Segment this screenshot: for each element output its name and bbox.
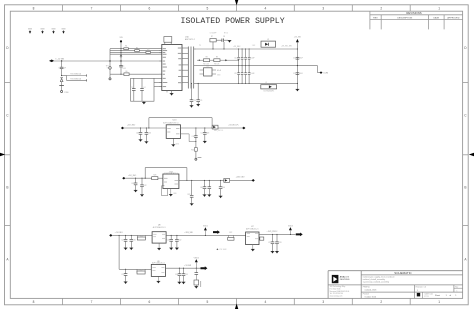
svg-text:C9 100PF: C9 100PF bbox=[210, 33, 217, 35]
svg-text:B: B bbox=[6, 186, 8, 190]
svg-text:6: 6 bbox=[149, 6, 151, 10]
svg-text:C35: C35 bbox=[185, 274, 188, 276]
svg-text:+ 3V3_PROC: + 3V3_PROC bbox=[267, 231, 279, 233]
svg-text:C14: C14 bbox=[293, 58, 296, 60]
svg-text:C3: C3 bbox=[131, 87, 133, 89]
svg-text:C21: C21 bbox=[200, 100, 203, 102]
svg-text:TP1: TP1 bbox=[106, 65, 109, 67]
svg-text:10UF: 10UF bbox=[299, 73, 303, 75]
svg-text:R29: R29 bbox=[187, 194, 190, 196]
svg-text:R5: R5 bbox=[136, 47, 138, 49]
svg-text:www.analog.com: www.analog.com bbox=[330, 295, 343, 297]
svg-text:C12: C12 bbox=[234, 73, 237, 75]
svg-text:DEVICES: DEVICES bbox=[340, 279, 350, 281]
svg-text:4: 4 bbox=[265, 300, 267, 304]
svg-text:R30: R30 bbox=[191, 149, 194, 151]
svg-text:57721: 57721 bbox=[424, 296, 429, 298]
svg-text:C34: C34 bbox=[175, 274, 178, 276]
svg-text:7: 7 bbox=[91, 300, 93, 304]
svg-text:2: 2 bbox=[380, 300, 382, 304]
svg-text:5V: 5V bbox=[107, 68, 109, 70]
svg-text:R3: R3 bbox=[147, 49, 149, 51]
svg-text:C4: C4 bbox=[143, 87, 145, 89]
svg-text:1: 1 bbox=[438, 300, 440, 304]
svg-text:C44: C44 bbox=[222, 187, 225, 189]
svg-text:Revision: 1.0: Revision: 1.0 bbox=[416, 286, 426, 288]
svg-text:1: 1 bbox=[438, 6, 440, 10]
svg-text:R28: R28 bbox=[153, 174, 156, 176]
svg-text:3: 3 bbox=[322, 6, 324, 10]
svg-text:GND_ISO_FL: GND_ISO_FL bbox=[214, 130, 224, 132]
svg-text:October 2016: October 2016 bbox=[365, 295, 376, 298]
svg-text:1: 1 bbox=[455, 295, 456, 297]
svg-text:R7: R7 bbox=[211, 36, 213, 38]
svg-text:C51 10UF: C51 10UF bbox=[219, 249, 226, 251]
svg-text:C20: C20 bbox=[193, 100, 196, 102]
svg-text:C41: C41 bbox=[131, 183, 134, 185]
svg-text:C32: C32 bbox=[178, 240, 181, 242]
svg-text:U11: U11 bbox=[206, 66, 209, 68]
svg-text:5 - 12 VIN: 5 - 12 VIN bbox=[55, 59, 64, 61]
svg-text:L2: L2 bbox=[267, 39, 269, 41]
svg-text:10UF: 10UF bbox=[122, 68, 126, 70]
svg-text:R6: R6 bbox=[126, 71, 128, 73]
svg-text:C5: C5 bbox=[58, 68, 60, 70]
svg-text:Rev: Rev bbox=[455, 287, 458, 289]
svg-text:PWB No:: PWB No: bbox=[363, 286, 371, 288]
svg-text:10UF: 10UF bbox=[250, 58, 254, 60]
svg-text:C47: C47 bbox=[200, 133, 203, 135]
svg-text:C1: C1 bbox=[122, 66, 124, 68]
svg-text:+5V_ISO: +5V_ISO bbox=[128, 175, 137, 177]
svg-text:C27: C27 bbox=[268, 242, 271, 244]
svg-text:L3: L3 bbox=[265, 82, 267, 84]
svg-text:R7 10: R7 10 bbox=[224, 33, 228, 35]
svg-text:4: 4 bbox=[265, 6, 267, 10]
svg-text:DESCRIPTION: DESCRIPTION bbox=[397, 18, 412, 20]
svg-text:C46: C46 bbox=[148, 133, 151, 135]
svg-text:1 UF: 1 UF bbox=[252, 45, 255, 47]
svg-text:R9: R9 bbox=[216, 56, 218, 58]
svg-text:3190: 3190 bbox=[217, 75, 221, 77]
svg-text:R4: R4 bbox=[125, 46, 127, 48]
svg-text:Printed:: Printed: bbox=[363, 293, 370, 296]
svg-text:ANALOG: ANALOG bbox=[340, 275, 349, 278]
svg-text:C31: C31 bbox=[167, 240, 170, 242]
svg-text:8: 8 bbox=[33, 300, 35, 304]
svg-text:1: 1 bbox=[417, 290, 418, 292]
svg-text:D6 SS2040FL: D6 SS2040FL bbox=[264, 90, 275, 92]
svg-text:T1: T1 bbox=[199, 45, 201, 47]
svg-text:2: 2 bbox=[380, 6, 382, 10]
svg-text:+ 5V SW: + 5V SW bbox=[184, 265, 191, 267]
svg-text:R9 10K: R9 10K bbox=[214, 63, 219, 65]
svg-text:C30: C30 bbox=[133, 240, 136, 242]
svg-text:B: B bbox=[464, 186, 466, 190]
svg-text:C8: C8 bbox=[223, 36, 225, 38]
svg-text:10UF: 10UF bbox=[250, 73, 254, 75]
svg-text:REV: REV bbox=[373, 18, 378, 20]
svg-text:C10: C10 bbox=[234, 58, 237, 60]
svg-text:C29: C29 bbox=[121, 240, 124, 242]
svg-text:C42: C42 bbox=[143, 185, 146, 187]
svg-text:DATE: DATE bbox=[433, 17, 439, 20]
svg-text:C49: C49 bbox=[192, 136, 195, 138]
svg-text:C15: C15 bbox=[293, 73, 296, 75]
svg-text:R24: R24 bbox=[140, 235, 143, 237]
svg-text:R25: R25 bbox=[140, 269, 143, 271]
svg-text:8: 8 bbox=[33, 6, 35, 10]
svg-text:+5V_SEC: +5V_SEC bbox=[233, 46, 241, 48]
svg-text:isolated_1306: isolated_1306 bbox=[365, 289, 377, 292]
svg-text:C33: C33 bbox=[121, 274, 124, 276]
svg-text:C43: C43 bbox=[200, 187, 203, 189]
svg-text:+5V_ISO: +5V_ISO bbox=[127, 125, 136, 127]
svg-text:ISOLATED POWER SUPPLY: ISOLATED POWER SUPPLY bbox=[181, 17, 285, 26]
svg-text:REVISIONS: REVISIONS bbox=[406, 11, 421, 15]
svg-text:+5V_ISO: +5V_ISO bbox=[294, 36, 302, 38]
svg-text:+5V_ISO_FL: +5V_ISO_FL bbox=[228, 124, 238, 126]
svg-text:3: 3 bbox=[322, 300, 324, 304]
svg-text:10UF: 10UF bbox=[299, 58, 303, 60]
svg-text:1UF: 1UF bbox=[63, 68, 66, 70]
svg-text:Sheet: Sheet bbox=[435, 294, 440, 297]
svg-text:5: 5 bbox=[207, 6, 209, 10]
svg-text:R22: R22 bbox=[229, 232, 232, 234]
svg-text:supervisory_isolated_assembly: supervisory_isolated_assembly bbox=[363, 281, 389, 284]
svg-text:+5V_ISO_SW: +5V_ISO_SW bbox=[281, 45, 292, 47]
svg-text:7: 7 bbox=[91, 6, 93, 10]
svg-text:C48: C48 bbox=[206, 133, 209, 135]
svg-text:5: 5 bbox=[207, 300, 209, 304]
svg-text:R8 100K: R8 100K bbox=[203, 63, 209, 65]
svg-text:1: 1 bbox=[446, 295, 447, 297]
svg-text:C45: C45 bbox=[136, 133, 139, 135]
svg-text:+3.3V_ISO: +3.3V_ISO bbox=[236, 177, 245, 179]
svg-text:+3V3_SW: +3V3_SW bbox=[184, 232, 192, 234]
svg-text:ADP1071-2: ADP1071-2 bbox=[185, 38, 195, 41]
svg-text:+ 5V ISO: + 5V ISO bbox=[115, 232, 124, 234]
svg-text:APPROVED: APPROVED bbox=[447, 17, 460, 20]
svg-text:6: 6 bbox=[149, 300, 151, 304]
svg-text:C28: C28 bbox=[278, 242, 281, 244]
svg-text:COM: COM bbox=[323, 73, 328, 75]
svg-text:R8: R8 bbox=[206, 56, 208, 58]
